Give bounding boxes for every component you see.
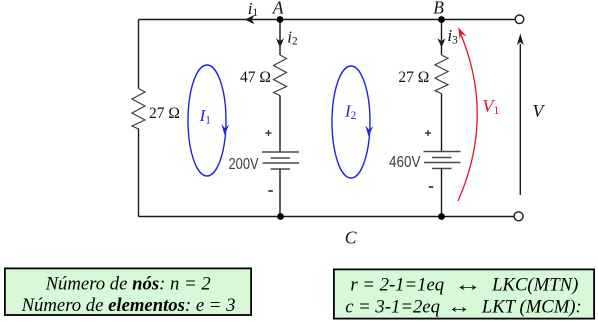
label + (460V) (425, 130, 431, 136)
svg-text:i3: i3 (447, 26, 458, 47)
resistor R2 47 ohm (274, 55, 287, 96)
wire branch B lower (441, 169, 443, 217)
wire bottom (node C rail) (139, 216, 515, 218)
voltage arrow V (head) (517, 34, 524, 46)
wire branch A upper (279, 20, 281, 56)
mesh current I2 arrowhead (365, 126, 373, 137)
label + (200V) (266, 130, 272, 136)
label - (460V) (429, 186, 434, 188)
svg-text:27 Ω: 27 Ω (149, 103, 180, 122)
info box: equations LKC/LKT (334, 269, 594, 318)
node C dot (bottom, branch A) (277, 213, 284, 220)
svg-text:47 Ω: 47 Ω (240, 67, 271, 86)
wire branch B upper (441, 20, 443, 56)
svg-text:V: V (533, 101, 546, 121)
terminal circle top right (515, 15, 524, 24)
info box: number of nodes/elements (5, 268, 251, 315)
wire left vertical (bottom segment) (138, 129, 140, 217)
svg-text:i1: i1 (248, 0, 258, 19)
resistor R1 27 ohm left (132, 89, 145, 130)
svg-text:A: A (272, 0, 284, 18)
svg-text:LKT (MCM):: LKT (MCM): (481, 297, 582, 318)
svg-text:LKC(MTN): LKC(MTN) (491, 274, 578, 295)
mesh current I1 ellipse (188, 65, 226, 176)
svg-text:Número de elementos: e = 3: Número de elementos: e = 3 (21, 295, 236, 316)
svg-text:200V: 200V (229, 156, 260, 173)
svg-text:c = 3-1=2eq: c = 3-1=2eq (345, 297, 440, 318)
node C dot (bottom, branch B) (438, 213, 445, 220)
svg-text:i2: i2 (287, 28, 298, 48)
resistor R3 27 ohm right (435, 55, 448, 94)
voltage V1 red arrowhead (458, 27, 467, 39)
voltage V1 red arc (458, 30, 477, 201)
wire top (node A-B rail) (139, 19, 516, 21)
svg-text:↔: ↔ (447, 297, 471, 318)
mesh current I1 arrowhead (221, 124, 229, 135)
svg-text:I2: I2 (344, 102, 357, 122)
terminal circle bottom right (514, 212, 523, 221)
svg-text:460V: 460V (389, 154, 421, 171)
svg-text:↔: ↔ (454, 274, 482, 295)
svg-text:C: C (345, 228, 357, 248)
battery 200V plates (262, 151, 299, 153)
battery 460V plates (424, 151, 461, 153)
svg-text:B: B (433, 0, 444, 17)
svg-text:I1: I1 (199, 106, 211, 126)
wire branch A lower (279, 169, 281, 217)
node A dot (277, 16, 284, 23)
svg-text:V1: V1 (482, 96, 499, 117)
wire branch B mid (441, 94, 443, 152)
svg-text:r = 2-1=1eq: r = 2-1=1eq (350, 274, 444, 295)
label - (200V) (268, 190, 273, 192)
svg-text:Número de nós: n = 2: Número de nós: n = 2 (45, 274, 211, 295)
voltage arrow V (line) (519, 44, 521, 195)
wire left vertical (top segment) (138, 20, 140, 89)
current arrow i1 head on top wire (245, 15, 255, 24)
wire branch A mid (279, 96, 281, 153)
mesh current I2 ellipse (332, 66, 370, 178)
svg-text:27 Ω: 27 Ω (398, 67, 429, 86)
node B dot (438, 16, 445, 23)
current arrow i3 head (437, 38, 445, 47)
current arrow i2 head (276, 38, 284, 47)
